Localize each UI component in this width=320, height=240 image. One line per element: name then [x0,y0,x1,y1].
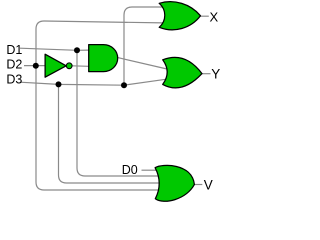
junction dot on D1 wire [74,47,80,53]
4-input priority encoder logic diagram [0,0,235,214]
or-gate Y [163,57,202,88]
wire node to OR X upper input via vertical riser [124,7,163,85]
svg-text:D3: D3 [6,72,22,86]
or-gate X [159,2,200,30]
svg-text:D2: D2 [6,58,22,72]
wire D0 to OR V input [142,169,158,171]
svg-text:D1: D1 [6,43,22,57]
wire node to OR Y lower input [124,79,167,85]
wire OR V output [194,184,202,186]
junction dot on D2 wire [33,63,39,69]
or-gate V [155,165,194,201]
wire AND output to OR Y upper input [118,58,167,69]
wire D1 branch down to OR V input [77,50,159,176]
svg-text:Y: Y [211,67,220,82]
wire D3 branch down to OR V input [59,84,161,183]
wire D2 branch up and right to OR X lower input [36,21,163,66]
inverter (NOT gate) triangle [45,54,66,77]
wire NOT output to AND lower input [72,65,89,68]
inverter bubble [66,63,72,69]
and-gate [89,45,118,72]
svg-text:V: V [204,177,213,192]
junction dot node right of AND [121,82,127,88]
wire D2 branch down to OR V input [36,66,160,190]
junction dot on D3 wire [56,81,62,87]
wire OR X output [200,15,209,17]
wire OR Y output [202,73,211,75]
wire D1 to AND upper input [20,48,89,50]
wire D2 to NOT input [24,65,45,67]
wire D3 to node junction right [20,82,124,85]
svg-text:X: X [210,9,219,24]
svg-text:D0: D0 [122,163,138,177]
